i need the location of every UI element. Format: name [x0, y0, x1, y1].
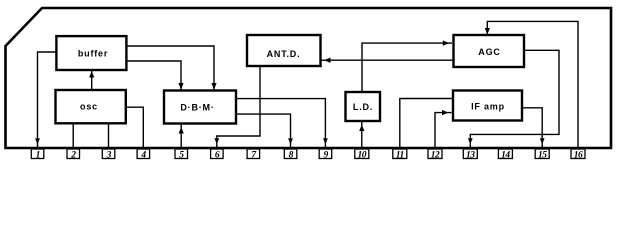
- pin 13: [463, 149, 477, 161]
- wire ANT.D. bottom to pin6 with down arrow: [214, 66, 260, 147]
- svg-text:14: 14: [501, 151, 510, 161]
- pin 6: [211, 149, 224, 161]
- pin 1: [31, 149, 44, 161]
- pin 7: [247, 149, 260, 161]
- wire AGC right to pin13 with down arrow: [468, 50, 559, 147]
- block AGC: [454, 35, 525, 67]
- svg-text:buffer: buffer: [78, 49, 108, 59]
- wire buffer-right (upper) to D.B.M. top with down arrow: [126, 46, 216, 90]
- svg-text:4: 4: [140, 151, 146, 161]
- wire osc to buffer with up arrow: [89, 71, 94, 90]
- svg-text:15: 15: [538, 151, 547, 161]
- pin 12: [428, 149, 442, 161]
- wire osc to pin2: [72, 123, 74, 148]
- block D.B.M.: [164, 91, 236, 124]
- pin 9: [319, 149, 332, 161]
- wire IF amp right to pin15 with down arrow: [522, 108, 545, 147]
- pin 15: [535, 149, 549, 161]
- wire pin12 to IF amp left with right arrow: [435, 110, 452, 148]
- svg-text:1: 1: [36, 151, 40, 161]
- wire D.B.M. right (upper) to pin9 with down arrow: [236, 99, 328, 147]
- svg-text:L.D.: L.D.: [353, 102, 373, 112]
- wire pin11 to IF amp left: [400, 99, 453, 149]
- block osc: [56, 90, 126, 123]
- pin 11: [393, 149, 407, 161]
- wire AGC left to ANT.D. right with left arrow: [322, 58, 454, 63]
- wire pin5 to D.B.M. bottom with up arrow: [179, 124, 184, 148]
- svg-text:IF amp: IF amp: [471, 102, 505, 112]
- pin 5: [175, 149, 188, 161]
- wire pin10 to L.D. bottom with up arrow: [359, 122, 364, 149]
- pin 4: [137, 149, 150, 161]
- svg-text:8: 8: [289, 151, 294, 161]
- svg-text:AGC: AGC: [478, 47, 500, 57]
- svg-text:D·B·M·: D·B·M·: [180, 103, 214, 113]
- svg-text:16: 16: [574, 151, 583, 161]
- svg-text:9: 9: [323, 151, 328, 161]
- svg-text:5: 5: [179, 151, 184, 161]
- svg-text:12: 12: [431, 151, 440, 161]
- pin 3: [102, 149, 115, 161]
- pin 8: [284, 149, 297, 161]
- wire D.B.M. right (lower) to pin8 with down arrow: [236, 114, 293, 147]
- svg-text:13: 13: [466, 151, 475, 161]
- wire pin16 to AGC top with down arrow: [485, 21, 578, 148]
- wire L.D. top to AGC left with right arrow: [362, 40, 452, 92]
- pin 16: [571, 149, 585, 161]
- pin 2: [67, 149, 80, 161]
- svg-text:2: 2: [70, 151, 76, 161]
- svg-text:10: 10: [358, 151, 367, 161]
- svg-text:ANT.D.: ANT.D.: [267, 49, 301, 59]
- svg-text:3: 3: [106, 151, 112, 161]
- pin 10: [355, 149, 369, 161]
- svg-text:11: 11: [396, 151, 404, 161]
- block ANT.D.: [247, 35, 321, 66]
- wire osc-right to pin4: [126, 107, 144, 148]
- pin 14: [498, 149, 512, 161]
- wire buffer-left to pin1 with down arrow: [35, 52, 56, 147]
- wire osc to pin3: [108, 123, 110, 148]
- block buffer: [56, 36, 126, 70]
- block IF amp: [453, 91, 522, 121]
- wire buffer-right (lower) to D.B.M. top with down arrow: [126, 61, 183, 90]
- IC package outline with chamfered top-left corner: [6, 8, 612, 148]
- svg-text:osc: osc: [80, 102, 98, 112]
- block L.D.: [346, 92, 381, 121]
